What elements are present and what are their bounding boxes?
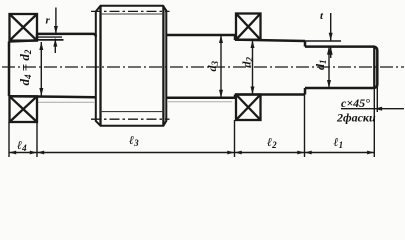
section d3 top line [166, 34, 235, 37]
section d3 bottom line [166, 97, 235, 100]
dimension d4=d2 line [40, 42, 42, 96]
gear pitch line top [91, 10, 170, 12]
chamfer note extension line 1 [373, 88, 375, 157]
centerline [2, 66, 404, 68]
dimension t leader lower [330, 47, 332, 58]
svg-text:ℓ2: ℓ2 [267, 135, 277, 150]
arrow r down [54, 26, 58, 34]
shaft left end face [8, 42, 11, 97]
gear chamfer edge line left [99, 6, 101, 126]
journal d2 bottom line [235, 93, 305, 96]
arrow d4 up [39, 42, 43, 50]
dimension d2 line [252, 40, 254, 95]
arrow r up [53, 39, 57, 47]
arrow l4 left [9, 151, 16, 155]
arrow d2 up [251, 40, 255, 48]
left journal d4 top line [9, 40, 37, 41]
chamfer note extension line 2 [376, 86, 378, 112]
shaft end chamfer line [373, 47, 375, 88]
arrow l2 left [235, 151, 242, 155]
extension line left end [8, 122, 10, 157]
arrow d3 down [219, 90, 223, 98]
shoulder step at x=37 [36, 34, 39, 40]
faint ghost line left [38, 101, 94, 103]
dimension d3 line [220, 35, 222, 98]
svg-text:d1: d1 [313, 60, 328, 71]
bearing right top [236, 14, 261, 40]
journal d2 top line [235, 40, 305, 41]
dimension r leader lower [54, 39, 56, 53]
dimension r leader upper [55, 8, 57, 34]
faint ghost line right [168, 101, 232, 103]
bearing left bottom [10, 96, 38, 122]
section d1 top line [305, 47, 377, 51]
arrow d4 down [39, 88, 43, 96]
svg-text:d3: d3 [205, 61, 220, 72]
svg-text:c×45°: c×45° [341, 96, 370, 110]
extension line x37 [36, 122, 38, 157]
bottom dimension line [9, 152, 374, 154]
gear root line top [101, 13, 164, 15]
svg-text:ℓ3: ℓ3 [129, 133, 139, 148]
bearing right bottom [236, 95, 261, 121]
fillet detail line [38, 36, 62, 38]
dimension t leader upper [330, 13, 332, 41]
left journal d4 top line continuation [37, 39, 64, 41]
arrow d1 up [327, 47, 331, 55]
step d2/d1 shoulder [304, 41, 307, 95]
left journal d4 bottom line [9, 96, 96, 97]
extension line x234.5 [234, 120, 236, 157]
step d3/d2 top [234, 35, 237, 40]
chamfer note arrow [374, 107, 382, 111]
arrow t down [329, 33, 333, 41]
svg-text:ℓ4: ℓ4 [17, 138, 27, 153]
arrow l4 right [30, 151, 37, 155]
dimension t extension line [305, 40, 341, 42]
svg-text:ℓ1: ℓ1 [334, 135, 344, 150]
svg-text:d4 = d2: d4 = d2 [17, 49, 33, 85]
svg-text:r: r [46, 15, 51, 27]
section B top line [37, 34, 96, 37]
section d1 bottom line [305, 85, 377, 89]
arrow l1 left [305, 151, 312, 155]
shaft right end face [376, 51, 379, 85]
gear root line bottom [101, 111, 164, 113]
gear chamfer edge line right [162, 6, 164, 126]
arrow d2 down [251, 87, 255, 95]
arrow t up [329, 47, 333, 55]
gear pitch line bottom [91, 118, 170, 120]
arrow l1 right [367, 151, 374, 155]
dimension d1 line [328, 47, 330, 88]
arrow d3 up [219, 35, 223, 43]
extension line x304.5 [304, 95, 306, 158]
gear blank outline [96, 6, 167, 126]
svg-text:t: t [320, 10, 324, 22]
svg-text:2фаски: 2фаски [336, 111, 376, 125]
arrow l3 right [227, 151, 234, 155]
arrow l3 left [37, 151, 44, 155]
arrow l2 right [297, 151, 304, 155]
bearing left top [10, 14, 38, 41]
chamfer note leader [341, 108, 404, 110]
svg-text:d2: d2 [240, 57, 255, 68]
arrow d1 down [327, 80, 331, 88]
step d3/d2 bottom [234, 95, 237, 98]
